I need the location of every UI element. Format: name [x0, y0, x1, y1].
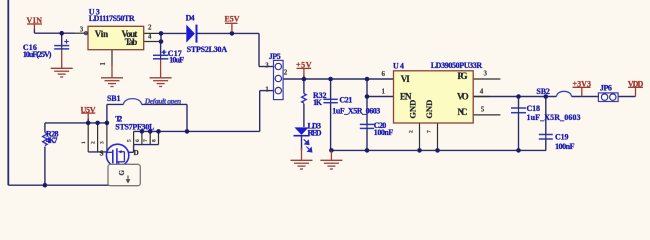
svg-text:1uF_X5R_0603: 1uF_X5R_0603 — [332, 106, 380, 115]
svg-text:SB2: SB2 — [536, 87, 550, 96]
svg-text:VDD: VDD — [628, 80, 644, 89]
svg-text:2: 2 — [284, 68, 288, 76]
svg-text:U4: U4 — [393, 62, 404, 71]
svg-text:7: 7 — [143, 139, 149, 142]
svg-text:4: 4 — [480, 87, 484, 95]
svg-text:Vin: Vin — [95, 29, 108, 39]
svg-text:+3V3: +3V3 — [573, 80, 592, 89]
svg-text:6: 6 — [135, 139, 141, 142]
svg-text:1K: 1K — [313, 98, 323, 107]
svg-text:7: 7 — [427, 130, 433, 133]
svg-text:10uF(25V): 10uF(25V) — [23, 50, 52, 59]
svg-text:JP5: JP5 — [269, 52, 281, 61]
svg-text:U5V: U5V — [81, 105, 96, 114]
svg-text:C18: C18 — [527, 104, 541, 113]
svg-text:PG: PG — [458, 71, 468, 81]
svg-text:1: 1 — [265, 86, 269, 94]
svg-text:STS7PF30L: STS7PF30L — [115, 122, 154, 131]
svg-text:C21: C21 — [339, 96, 352, 105]
svg-text:VO: VO — [457, 92, 469, 102]
svg-text:G: G — [118, 170, 126, 176]
svg-text:Default open: Default open — [144, 97, 182, 106]
svg-text:1: 1 — [382, 87, 386, 95]
svg-text:3: 3 — [100, 141, 106, 144]
svg-text:GND: GND — [424, 100, 434, 119]
svg-text:RED: RED — [308, 128, 322, 137]
svg-text:C19: C19 — [555, 133, 569, 142]
svg-text:8: 8 — [152, 139, 158, 142]
svg-text:VI: VI — [401, 74, 410, 84]
svg-text:100nF: 100nF — [555, 142, 575, 151]
svg-text:6: 6 — [382, 70, 386, 78]
svg-text:4: 4 — [148, 33, 152, 41]
svg-text:+5V: +5V — [296, 61, 312, 70]
svg-text:1: 1 — [99, 62, 107, 66]
svg-text:2: 2 — [409, 130, 415, 133]
svg-text:1uF_X5R_0603: 1uF_X5R_0603 — [527, 113, 581, 122]
svg-text:D4: D4 — [186, 14, 195, 23]
svg-text:LD1117S50TR: LD1117S50TR — [89, 14, 135, 23]
svg-text:5: 5 — [481, 106, 485, 114]
svg-text:S: S — [100, 149, 104, 157]
svg-text:JP6: JP6 — [600, 83, 612, 92]
svg-text:NC: NC — [458, 107, 468, 117]
svg-text:5: 5 — [127, 139, 133, 142]
svg-text:3: 3 — [265, 62, 269, 70]
svg-text:LD39050PU33R: LD39050PU33R — [431, 61, 483, 70]
svg-text:3: 3 — [484, 70, 488, 78]
svg-text:VIN: VIN — [27, 16, 43, 25]
svg-text:3: 3 — [80, 26, 84, 34]
svg-text:+: + — [162, 49, 166, 57]
svg-text:1: 1 — [81, 141, 87, 144]
svg-text:STPS2L30A: STPS2L30A — [187, 45, 228, 54]
svg-text:10uF: 10uF — [169, 56, 184, 65]
svg-text:E5V: E5V — [225, 15, 240, 24]
svg-text:2: 2 — [148, 24, 152, 32]
svg-text:4K7: 4K7 — [46, 136, 58, 145]
svg-text:100nF: 100nF — [374, 128, 394, 137]
svg-text:2: 2 — [90, 141, 96, 144]
svg-text:Tab: Tab — [125, 37, 138, 47]
svg-text:SB1: SB1 — [107, 94, 121, 103]
svg-text:D: D — [134, 149, 139, 157]
svg-text:GND: GND — [407, 100, 417, 119]
